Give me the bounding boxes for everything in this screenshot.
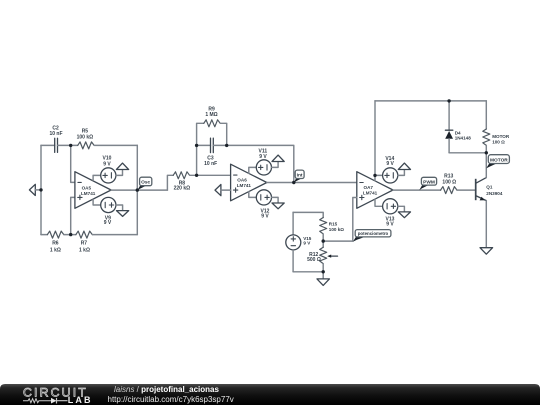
potentiometer R12 500 Ω [307,241,337,272]
svg-text:MOTOR: MOTOR [492,134,510,139]
node V+ junction dot [373,174,376,177]
node top rail junction dot [447,99,450,102]
ground for V9 [116,205,129,216]
node flag potenciometro [353,230,391,242]
node R6/R7 junction dot [69,233,72,236]
wire R13 to Q1 base [457,189,476,191]
resistor MOTOR 100 Ω [483,101,510,153]
svg-text:9 V: 9 V [104,220,112,226]
resistor R7 1 kΩ [76,231,92,253]
svg-text:LM741: LM741 [363,191,378,196]
svg-text:OA5: OA5 [82,185,92,190]
wire jog up to R8 level [167,175,173,190]
node flag PWM [419,177,436,190]
svg-text:Q1: Q1 [486,184,493,189]
svg-text:100 kΩ: 100 kΩ [77,135,94,141]
wire V15 bottom rail [293,271,323,273]
svg-text:potenciometro: potenciometro [358,231,389,236]
svg-text:OA6: OA6 [237,177,247,182]
svg-text:10 nF: 10 nF [204,161,217,167]
capacitor C2 10 nF [49,126,62,153]
voltage source V12 9 V [249,190,272,220]
ground for V15/R12 [317,272,329,286]
wire right rail of oscillator [136,145,138,234]
svg-text:9 V: 9 V [103,162,111,168]
wire V15 top to R15 [293,212,323,217]
resistor R15 100 kΩ [320,218,345,242]
wire junction to potentiometer corner [323,240,353,242]
wire between R6 and R7 [64,234,76,236]
svg-text:LAB: LAB [68,395,93,405]
ground for V12 [272,197,285,208]
node V15 bottom junction dot [322,270,325,273]
voltage source V11 9 V [249,148,272,175]
svg-text:PWM: PWM [423,179,435,185]
ground flag arrow left at OA6 non-inverting input [215,185,231,196]
wire to C3 [197,144,211,146]
svg-text:V10: V10 [103,155,112,161]
svg-text:http://circuitlab.com/c7yk6sp3: http://circuitlab.com/c7yk6sp3sp77v [108,395,234,404]
wire OA7 output to R13 [393,189,441,191]
wire Q1 emitter down [485,201,487,248]
svg-text:MOTOR: MOTOR [490,157,508,163]
svg-text:1 MΩ: 1 MΩ [205,112,217,118]
wire C3 to output vertical [213,145,293,182]
ground for V13 [398,206,411,217]
wire inverting input of OA5 [71,145,75,182]
wire OA5 output [111,189,167,191]
wire OA6 output to OA7 inverting input [267,182,357,184]
wire R5 to right rail [94,144,137,146]
node feedback right junction dot [225,144,228,147]
svg-text:100 Ω: 100 Ω [492,139,505,144]
resistor R5 100 kΩ [77,129,94,149]
svg-text:9 V: 9 V [259,154,267,160]
node flag Osc [137,177,151,190]
svg-text:LM741: LM741 [237,183,252,188]
svg-text:10 nF: 10 nF [49,131,62,137]
node feedback left junction dot [195,144,198,147]
svg-text:1 kΩ: 1 kΩ [50,247,61,253]
node R15/R12 junction dot [322,239,325,242]
svg-text:R6: R6 [52,241,59,247]
diode D4 1N4148 [445,101,471,153]
ground flag arrow left [29,184,41,195]
node J1 junction dot [69,144,72,147]
svg-text:R7: R7 [81,241,88,247]
wire R7 to right rail [93,234,138,236]
resistor R8 220 kΩ [173,172,190,192]
wire R9 loop left vertical [197,123,204,145]
voltage source V13 9 V [375,199,398,228]
op-amp OA5 LM741 [75,172,111,209]
op-amp OA6 LM741 [231,164,267,201]
svg-text:500 Ω: 500 Ω [307,257,321,263]
node motor junction dot [485,151,488,154]
power flag arrow up for V14 [398,163,411,175]
capacitor C3 10 nF [204,138,217,167]
wire left rail of oscillator [40,145,42,234]
svg-text:1N4148: 1N4148 [455,136,472,141]
svg-text:9 V: 9 V [303,241,311,246]
ground for Q1 emitter [480,248,493,255]
svg-text:R13: R13 [444,173,453,179]
node flag Int [294,170,304,183]
node arrow junction dot [39,188,42,191]
voltage source V15 9 V [286,212,312,271]
svg-text:LM741: LM741 [81,191,96,196]
resistor R9 1 MΩ [204,106,220,126]
svg-text:100 Ω: 100 Ω [442,180,456,186]
wire R9 loop right vertical [220,123,226,145]
wire top left to C2 [41,144,55,146]
wire C2 to node J1 [58,144,78,146]
node OA6 output junction dot [292,181,295,184]
svg-text:220 kΩ: 220 kΩ [174,186,191,192]
wire OA7 non-inverting input down [353,198,357,242]
footer bar background [0,384,540,405]
transistor Q1 2N3904 [476,178,503,201]
resistor R6 1 kΩ [47,231,63,253]
svg-text:9 V: 9 V [386,222,394,228]
wire node A up to feedback [196,145,198,175]
svg-text:laisns / projetofinal_acionas: laisns / projetofinal_acionas [114,385,219,394]
wire Q1 collector up [485,153,487,178]
svg-text:9 V: 9 V [261,214,269,220]
resistor R13 100 Ω [441,173,457,193]
wire V+ rail up from OA7 [374,101,376,181]
svg-text:Osc: Osc [141,179,150,185]
svg-text:OA7: OA7 [364,185,374,190]
wire bottom rail left segment [41,234,47,236]
power flag arrow up for V11 [272,155,285,167]
node flag MOTOR [486,155,509,169]
wire R8 to node A [190,174,231,176]
node A junction dot [195,174,198,177]
svg-text:100 kΩ: 100 kΩ [329,227,344,232]
svg-text:Int: Int [297,172,303,178]
svg-text:1 kΩ: 1 kΩ [79,247,90,253]
wire top rail [375,100,486,102]
voltage source V9 9 V [93,197,116,226]
svg-text:9 V: 9 V [386,161,394,167]
op-amp OA7 LM741 [357,172,393,209]
voltage source V14 9 V [375,156,398,183]
power flag arrow up for V10 [116,163,129,175]
svg-text:2N3904: 2N3904 [486,191,503,196]
wire non-inverting input of OA5 [71,197,75,234]
wire diode to motor branch [449,152,486,154]
voltage source V10 9 V [93,155,116,183]
node Osc junction dot [136,188,139,191]
logo schematic squiggle with diode [23,398,68,404]
